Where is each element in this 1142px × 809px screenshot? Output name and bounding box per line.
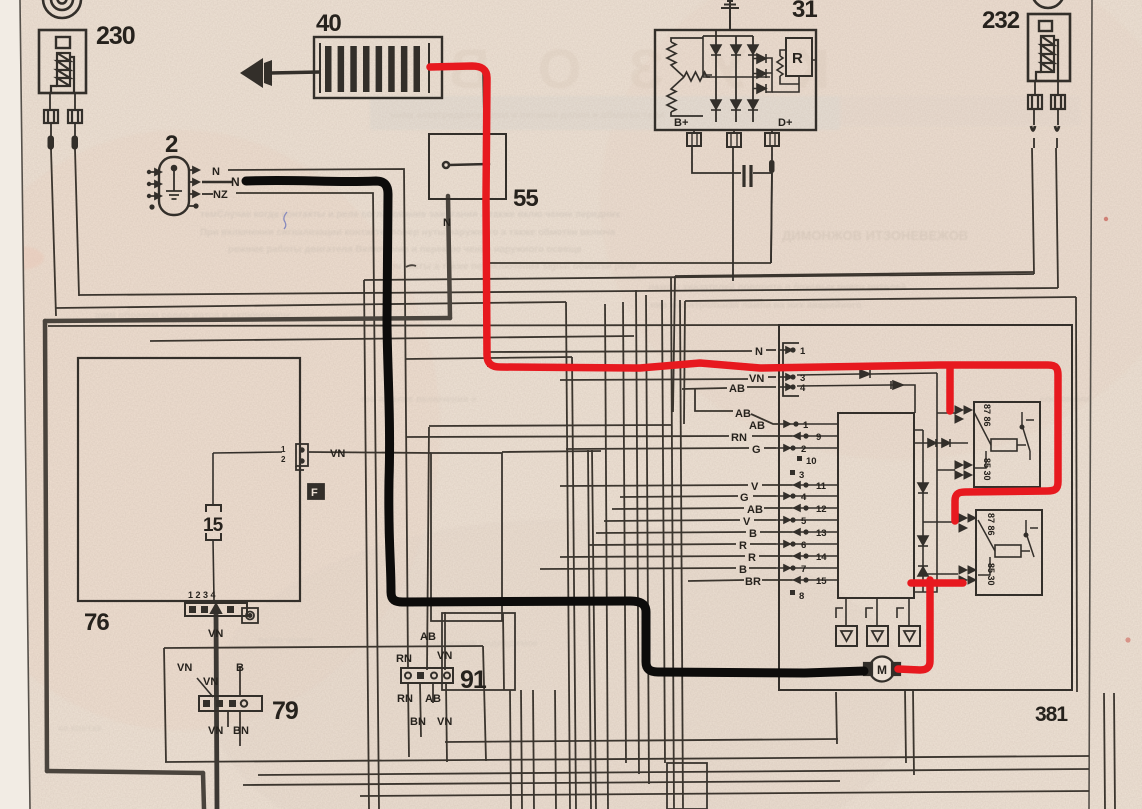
wire vertical V605 <box>605 304 608 809</box>
alternator stator windings <box>667 38 710 116</box>
wire right edge of 79 box <box>483 646 486 761</box>
regulator resistor <box>777 56 783 76</box>
THICK BLACK MARKER WIRE <box>246 180 864 673</box>
wire vertical bottom v913 <box>913 690 914 775</box>
wire BN below 91 <box>420 683 421 737</box>
wire 232 leads <box>1034 81 1058 125</box>
regulator connections <box>772 50 816 92</box>
flasher 2 right pins <box>189 167 199 209</box>
blue pen mark <box>284 212 287 229</box>
wire H648 top edge of 79 box <box>164 646 483 648</box>
svg-text:40: 40 <box>316 10 341 37</box>
pin 12 AB <box>792 505 812 511</box>
pin 10 <box>797 456 802 461</box>
terminal V mark 232 left <box>1031 126 1035 131</box>
svg-text:VN: VN <box>208 725 223 737</box>
relay K2 internal wires <box>978 520 1038 575</box>
wire 230 right lead down <box>75 149 79 296</box>
alternator bottom pins <box>694 130 772 133</box>
wire G pin4 right <box>753 495 776 497</box>
connector block D+ <box>765 133 779 146</box>
wire H340 long <box>150 336 634 341</box>
relay K2 body <box>976 510 1042 595</box>
pin 15 BR <box>792 577 812 583</box>
svg-text:2: 2 <box>801 444 806 455</box>
svg-text:V: V <box>751 481 759 493</box>
svg-text:B: B <box>749 528 757 540</box>
wire vertical V675 <box>673 276 675 412</box>
wire BR pin15 feed <box>688 580 744 581</box>
wire R pin14 right <box>759 555 792 557</box>
wire 232 right lead up <box>1056 148 1058 288</box>
wire chain to relay2 bottom <box>923 573 958 575</box>
relay 232 coil <box>1036 36 1058 81</box>
svg-text:N: N <box>443 217 451 229</box>
relay pin labels rotated <box>982 404 996 586</box>
connector strip below 76 <box>185 603 247 616</box>
wire bus H275 <box>675 272 1034 276</box>
relay K2 coil <box>995 545 1021 557</box>
svg-text:ния и контрольная лампа на них: ния и контрольная лампа на них аварийног… <box>650 300 862 311</box>
wire red stub to relay K1 <box>946 367 954 411</box>
wire 230 left lead down <box>51 149 56 316</box>
relay K1 pins top <box>955 406 972 423</box>
wire vertical V636 <box>636 290 639 774</box>
pin 13 B <box>792 529 812 535</box>
diode vertical on chain 3 <box>918 566 928 576</box>
svg-text:3: 3 <box>799 470 804 481</box>
svg-text:4: 4 <box>801 492 807 503</box>
wire bus H300 <box>685 297 1076 301</box>
wire vertical bottom v521 <box>521 690 522 809</box>
svg-text:B+: B+ <box>674 117 688 129</box>
THICK RED MARKER WIRE <box>430 66 1058 670</box>
wire D+ vertical <box>771 166 772 263</box>
wire V pin11 feed <box>560 485 748 486</box>
wire mid terminal down to bus <box>732 147 734 281</box>
svg-text:AB: AB <box>735 408 751 420</box>
wire H784 <box>243 781 840 785</box>
regulator R box <box>786 38 812 76</box>
wire AB pin4 feed right part <box>747 386 776 388</box>
relay 232 contact square <box>1039 21 1052 31</box>
bleed-through faint text rows <box>58 110 1090 734</box>
wire G pin2 feed right <box>764 447 776 449</box>
fuse block 40 body <box>314 37 442 98</box>
relay K2 contact dot <box>1024 533 1028 537</box>
wire vertical bottom v1114 <box>1114 693 1115 809</box>
splice dot 230 right <box>72 136 78 149</box>
wire VN pin3 feed right part <box>768 376 776 378</box>
ground box 2 <box>867 626 888 646</box>
horn symbol top-left circles <box>43 0 81 18</box>
wire bus H280 <box>364 274 1034 280</box>
svg-text:BR: BR <box>745 576 761 588</box>
relay K2 pins bottom <box>959 566 976 584</box>
wire vertical bottom v555 <box>555 690 556 809</box>
wires pins to module <box>796 424 838 580</box>
wire inner vertical 503 <box>503 613 504 690</box>
wire module to chain <box>914 430 923 443</box>
pin 3 VN <box>779 374 795 380</box>
bleed-through watermark (mirrored) <box>401 37 830 100</box>
svg-text:381: 381 <box>1035 703 1068 726</box>
wire H263 D+ feed <box>490 262 771 264</box>
switch 55 contact <box>443 162 489 168</box>
wire BR pin15 right <box>762 579 792 581</box>
ground box 3 <box>899 626 920 646</box>
wire vertical V646 <box>646 295 649 784</box>
svg-text:11: 11 <box>816 481 827 492</box>
wire chain vertical 2 <box>922 430 924 592</box>
wire vertical V592 <box>592 450 596 809</box>
svg-text:1: 1 <box>803 420 809 431</box>
flasher unit 2 body <box>159 157 189 215</box>
relay K1 pins bottom <box>955 461 972 479</box>
svg-text:AB: AB <box>729 383 745 395</box>
wire AB below 91 <box>432 683 434 703</box>
pin 4 G <box>776 493 796 499</box>
svg-text:10: 10 <box>806 456 817 467</box>
relay K1 internal wires <box>974 412 1034 468</box>
pin 4 AB <box>779 384 795 390</box>
wire fuse to connector <box>213 540 214 600</box>
svg-text:AB: AB <box>425 693 441 705</box>
wire 232 lead tails <box>1034 138 1057 148</box>
svg-text:55: 55 <box>513 185 538 212</box>
wire NZ short <box>202 193 213 195</box>
wire vertical bottom v836 <box>836 692 837 744</box>
svg-text:RN: RN <box>731 432 747 444</box>
svg-text:состоянии: состоянии <box>1040 394 1090 405</box>
wire vertical bottom v1104 <box>1104 693 1105 809</box>
svg-text:85 30: 85 30 <box>986 563 996 586</box>
svg-text:5: 5 <box>801 516 807 527</box>
svg-text:ДИМОНЖОВ ИТЗОНЕВЕЖОВ: ДИМОНЖОВ ИТЗОНЕВЕЖОВ <box>782 228 968 243</box>
wire V pin11 right <box>762 484 792 486</box>
svg-text:15: 15 <box>816 576 827 587</box>
wire H774 long <box>258 769 1089 775</box>
svg-text:R: R <box>792 50 803 67</box>
fiat logo box <box>308 484 324 499</box>
svg-text:N: N <box>212 166 220 178</box>
wire N line of 55 below box <box>487 199 489 367</box>
wire N horizontal to left frame <box>45 318 450 321</box>
connector bracket pins 1-4 <box>783 343 799 396</box>
pin 5 V <box>776 517 796 523</box>
diode on VN line <box>797 370 937 378</box>
lamp icon box <box>242 608 258 623</box>
wire vertical V680 <box>680 300 683 809</box>
pin numbers <box>799 346 827 602</box>
svg-text:91: 91 <box>460 666 487 694</box>
svg-text:232: 232 <box>982 7 1020 34</box>
wire VN continues right <box>502 451 601 452</box>
splice dot 230 left <box>48 136 54 149</box>
wire AB diagonal to pin 1 <box>751 414 778 424</box>
svg-text:RN: RN <box>397 693 413 705</box>
wire vertical V572 <box>572 357 576 809</box>
svg-text:1: 1 <box>281 445 286 454</box>
alternator diode bridge top rail <box>703 30 753 36</box>
pin 3 mid <box>790 470 795 475</box>
svg-text:230: 230 <box>96 22 135 50</box>
svg-text:8: 8 <box>799 591 804 602</box>
wire H437 RN feed <box>406 436 729 437</box>
alternator mid rail <box>703 36 770 77</box>
wire BN stub below 79 <box>239 711 241 746</box>
svg-text:VN: VN <box>203 676 218 688</box>
wire black N route <box>246 180 864 673</box>
wire NZ line <box>236 193 379 809</box>
relay 230 body <box>39 30 86 93</box>
wire chain to relay2 top <box>923 521 958 523</box>
wire B pin7 right <box>749 567 776 569</box>
diode bottom row <box>711 100 758 110</box>
svg-text:R: R <box>739 540 747 552</box>
svg-text:вклю чения: вклю чения <box>258 635 313 646</box>
svg-text:При включении сигнализации кон: При включении сигнализации контакты пове… <box>200 227 616 238</box>
alternator diode bridge verticals <box>716 36 753 122</box>
relay 230 coil <box>51 53 74 94</box>
svg-text:31: 31 <box>792 0 817 23</box>
wire vertical V623 <box>623 302 626 763</box>
wire AB pin12 feed <box>612 508 744 509</box>
wire H358 <box>406 357 572 359</box>
wire 232 left lead up <box>1032 148 1034 274</box>
diode trio right <box>753 54 766 93</box>
svg-text:F: F <box>311 487 318 499</box>
gear circle top right <box>1032 0 1064 8</box>
motor M <box>864 657 900 682</box>
wire capacitor to D+ lead <box>753 172 772 174</box>
wire N pin1 feed right part <box>766 349 776 351</box>
pin 9 RN <box>792 433 812 439</box>
arrow feed symbol <box>240 58 263 88</box>
svg-text:VN: VN <box>749 373 764 385</box>
wire N line from unit 2 <box>228 169 408 668</box>
svg-text:13: 13 <box>816 528 827 539</box>
wire vertical bottom v510 <box>510 690 511 809</box>
svg-text:напряжение подводимое: напряжение подводимое <box>420 638 538 649</box>
relay K1 coil <box>991 439 1017 451</box>
connector strip 79 <box>199 696 262 711</box>
svg-text:1: 1 <box>800 346 806 357</box>
wire VN feed to 91 <box>444 612 446 670</box>
wire B pin7 feed <box>540 568 736 569</box>
wire box bottom center <box>667 763 707 809</box>
svg-text:AB: AB <box>749 420 765 432</box>
wire 230 left block lead <box>50 94 51 150</box>
alternator field diode collector <box>766 58 772 92</box>
pin 6 R <box>776 541 796 547</box>
wire VN from unit 76 <box>309 452 431 453</box>
svg-text:85 30: 85 30 <box>982 458 992 481</box>
wire V pin5 right <box>754 519 776 521</box>
diode pair to relay K7 <box>923 439 968 447</box>
svg-text:15: 15 <box>203 515 224 536</box>
svg-text:AB: AB <box>747 504 763 516</box>
wire V pin5 feed <box>604 520 740 521</box>
wire left edge 79 box <box>164 648 166 762</box>
svg-text:темСлучае когда контакты и рел: темСлучае когда контакты и реле согласов… <box>200 209 621 220</box>
svg-text:VN: VN <box>330 448 345 460</box>
svg-text:тов а также включения э: тов а также включения э <box>360 394 476 405</box>
wire R pin6 right <box>750 543 776 545</box>
fuse 15 symbol <box>206 505 221 540</box>
wire H740 <box>445 739 838 742</box>
svg-text:VN: VN <box>437 716 452 728</box>
pink smudge <box>0 246 44 270</box>
svg-text:NZ: NZ <box>213 189 228 201</box>
wire vertical bottom v533 <box>533 690 534 809</box>
wire bus H294 left-to-232 <box>79 288 1058 295</box>
svg-text:BN: BN <box>233 725 249 737</box>
pin 7 B <box>776 565 796 571</box>
wire G pin2 feed <box>566 448 749 449</box>
svg-text:RN: RN <box>396 653 412 665</box>
connector 230 left pin block <box>44 110 58 123</box>
wire big box top edge <box>48 325 779 326</box>
wire G pin4 feed <box>620 496 738 497</box>
wire arrow to fuse block <box>270 72 320 73</box>
wire VN thick below 76 <box>216 613 217 809</box>
wire B pin13 feed <box>596 532 746 533</box>
connector 232 right pin block <box>1051 95 1065 109</box>
wire B+ down to capacitor <box>692 146 741 173</box>
wire R pin14 feed <box>560 556 745 557</box>
svg-text:12: 12 <box>816 504 827 515</box>
wire red from fuse block 40 <box>430 66 1058 521</box>
page left margin strip <box>0 0 30 809</box>
connector block mid <box>727 133 741 147</box>
relay 232 body <box>1028 14 1070 81</box>
terminal V mark 232 right <box>1055 126 1059 131</box>
connector block B+ <box>687 133 701 146</box>
wire chain to relay1 bottom <box>937 469 955 471</box>
wire box right of 76 <box>431 453 502 621</box>
wire bus H305 <box>56 302 566 308</box>
svg-text:7: 7 <box>801 564 806 575</box>
svg-text:14: 14 <box>816 552 827 563</box>
wire AB loop to pin 1 <box>695 389 733 411</box>
svg-text:нием электродвигателем и питан: нием электродвигателем и питание допол и… <box>390 110 664 121</box>
svg-text:2: 2 <box>281 455 286 464</box>
ground at alternator top <box>721 1 739 30</box>
svg-text:G: G <box>752 444 761 456</box>
alternator 31 body <box>655 30 816 130</box>
connector 232 left pin block <box>1028 95 1042 109</box>
ground box 1 <box>836 626 857 646</box>
wire RN feed to pin 9 <box>752 435 792 437</box>
pin 8 <box>790 590 795 595</box>
wire N line of 55 upper <box>442 68 485 165</box>
wire red at motor M <box>898 580 963 670</box>
relay K2 pins top <box>959 514 976 532</box>
wire B stub to 79 <box>239 666 241 697</box>
wire box lower center <box>442 613 515 690</box>
wire pin4 stub below 79 <box>227 711 229 727</box>
svg-text:VN: VN <box>208 628 223 640</box>
svg-text:87 86: 87 86 <box>982 404 992 427</box>
svg-text:AB: AB <box>420 631 436 643</box>
arrow feed symbol bar <box>264 60 272 86</box>
pin 1 lower AB <box>778 421 798 427</box>
module ground legs <box>836 598 909 626</box>
svg-text:N: N <box>231 175 240 189</box>
flasher 2 left pins <box>147 169 161 210</box>
capacitor plates <box>744 165 751 187</box>
page left border line <box>20 0 30 809</box>
pin 2 G <box>776 445 796 451</box>
svg-text:ка контак: ка контак <box>58 723 102 734</box>
diode on AB line <box>797 381 915 413</box>
svg-text:76: 76 <box>84 609 109 636</box>
wire N pin1 feed <box>490 351 752 352</box>
svg-text:4: 4 <box>800 383 806 394</box>
relay 230 contact square <box>56 37 70 48</box>
diode vertical on chain 2 <box>918 536 928 546</box>
wire vertical V685 <box>684 301 685 424</box>
wire vertical V364 <box>364 280 369 809</box>
wire AB feed to 91 <box>427 427 429 670</box>
diode vertical on chain <box>918 483 928 493</box>
stray pen dash <box>406 265 416 267</box>
relay K1 body <box>974 402 1040 487</box>
svg-text:BN: BN <box>410 716 426 728</box>
wire vertical V662 <box>662 300 665 763</box>
page right border line <box>1089 0 1092 809</box>
wire VN diagonal lead <box>197 678 213 697</box>
wire RN below 91 <box>408 683 409 757</box>
motor control module box <box>838 413 914 598</box>
svg-text:G: G <box>740 492 749 504</box>
wire N from switch 55 down <box>448 196 450 318</box>
wire H795 <box>360 791 1089 796</box>
switch 55 body <box>429 134 506 199</box>
wire D+ lead <box>771 146 772 263</box>
wire frame bottom horizontal <box>47 771 203 773</box>
svg-text:N: N <box>755 346 763 358</box>
wire VN below 91 <box>446 683 447 762</box>
control box 76 body <box>78 358 300 601</box>
wire vertical bottom v905 <box>905 690 906 763</box>
wire frame left vertical <box>45 321 47 771</box>
wire vertical V671 <box>671 277 674 809</box>
wire 76 down to fuse <box>212 453 214 506</box>
svg-text:M: M <box>877 663 887 677</box>
wire vertical V1076 <box>1076 297 1077 692</box>
wire vertical V588 <box>588 450 591 809</box>
wire chain to relay1 top <box>937 412 955 414</box>
wire R pin6 feed <box>588 544 736 545</box>
diode top row <box>711 45 758 55</box>
wire 76 internal junction <box>213 452 282 453</box>
relay K1 contact dot <box>1020 425 1024 429</box>
svg-text:6: 6 <box>801 540 806 551</box>
wire frame down to page edge <box>203 773 204 809</box>
svg-text:R: R <box>748 552 756 564</box>
pin 1 N <box>779 347 795 353</box>
connector 230 right pin block <box>68 110 82 123</box>
svg-text:V: V <box>743 516 751 528</box>
svg-text:D+: D+ <box>778 117 792 129</box>
svg-text:1 2 3 4: 1 2 3 4 <box>188 590 216 600</box>
pin 11 V <box>792 482 812 488</box>
svg-text:79: 79 <box>272 697 298 725</box>
svg-text:VN: VN <box>177 662 192 674</box>
svg-text:B: B <box>236 662 244 674</box>
